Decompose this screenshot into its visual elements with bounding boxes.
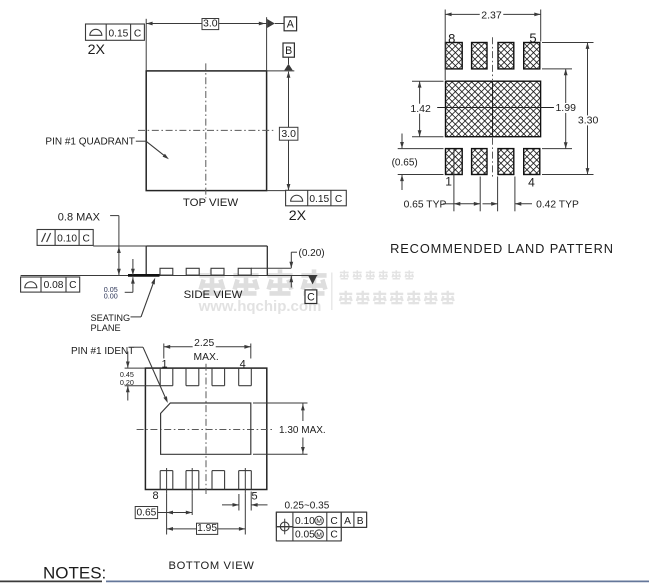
svg-text:2.37: 2.37 <box>481 10 502 22</box>
watermark slogan line1 <box>340 270 349 279</box>
svg-text:M: M <box>316 532 322 539</box>
svg-text:3.0: 3.0 <box>281 128 296 140</box>
datum C label box <box>305 290 317 304</box>
svg-text:BOTTOM VIEW: BOTTOM VIEW <box>169 560 255 572</box>
svg-text:0.65 TYP: 0.65 TYP <box>404 200 447 211</box>
svg-text:1: 1 <box>161 358 167 370</box>
svg-text:4: 4 <box>528 175 535 189</box>
dimension 0.65 TYP <box>453 150 455 212</box>
datum A label box <box>284 17 297 31</box>
lead top extension line <box>251 267 291 269</box>
svg-text:SIDE VIEW: SIDE VIEW <box>184 289 243 301</box>
dimension 3.0 vertical <box>288 72 290 191</box>
seating plane thick segment <box>128 274 160 277</box>
svg-text:C: C <box>82 233 89 244</box>
bottom view horizontal centerline <box>137 429 274 431</box>
svg-text:C: C <box>307 291 315 303</box>
svg-text:1.30 MAX.: 1.30 MAX. <box>279 425 326 436</box>
dimension 2.37 <box>444 10 446 81</box>
svg-text:3.30: 3.30 <box>578 115 599 127</box>
top view package body outline <box>146 71 266 191</box>
pin 1 quadrant leader <box>136 140 146 142</box>
svg-text:0.42 TYP: 0.42 TYP <box>536 200 579 211</box>
side view lead 1 <box>160 268 173 275</box>
page bottom border <box>0 580 102 582</box>
svg-text:C: C <box>134 28 141 39</box>
side view lead 2 <box>186 268 199 275</box>
svg-text:8: 8 <box>448 31 455 46</box>
svg-text:1.99: 1.99 <box>555 102 576 114</box>
svg-text:0.10: 0.10 <box>295 516 315 527</box>
svg-text:SEATING: SEATING <box>91 313 131 323</box>
side view body outline <box>146 245 267 247</box>
dimension 2.25 MAX <box>163 344 165 359</box>
side view top surface extension line <box>93 245 146 247</box>
land pattern center pad <box>446 81 541 137</box>
land pattern horizontal centerline <box>437 107 556 109</box>
datum feature B triangle <box>288 57 290 64</box>
profile tolerance frame seating plane <box>21 277 80 292</box>
bottom view body outline <box>145 368 266 489</box>
bottom edge extension line <box>267 190 286 192</box>
seating plane line <box>21 275 318 277</box>
land pattern vertical centerline <box>492 37 494 80</box>
svg-text:A: A <box>287 19 295 31</box>
dimension 3.30 <box>542 42 594 44</box>
svg-text:(0.65): (0.65) <box>392 157 418 168</box>
svg-text:0.15: 0.15 <box>108 28 128 39</box>
svg-text:B: B <box>285 45 292 57</box>
svg-text:NOTES:: NOTES: <box>43 564 106 583</box>
pin 1 ident leader <box>129 346 144 348</box>
svg-text:1.42: 1.42 <box>410 103 431 115</box>
svg-text:PIN #1 IDENT: PIN #1 IDENT <box>71 346 134 357</box>
dimension 0.25~0.35 lead width <box>238 494 240 511</box>
dimension 0.65 pitch <box>166 494 168 535</box>
svg-text:0.65: 0.65 <box>136 507 156 518</box>
dimension 3.0 horizontal <box>146 23 266 25</box>
svg-text:0.00: 0.00 <box>104 292 118 301</box>
svg-text:PIN #1 QUADRANT: PIN #1 QUADRANT <box>45 137 134 148</box>
dimension 1.30 MAX <box>253 402 308 404</box>
svg-text:RECOMMENDED LAND PATTERN: RECOMMENDED LAND PATTERN <box>390 241 614 256</box>
top edge extension line <box>267 70 295 72</box>
svg-text:B: B <box>357 516 364 527</box>
bottom view bottom row pins <box>159 471 161 490</box>
datum B label box <box>283 43 294 57</box>
top view left extension line <box>145 19 147 71</box>
svg-text:0.08: 0.08 <box>44 280 64 291</box>
profile tolerance frame bottom-right <box>286 190 347 206</box>
side view lead 4 <box>238 268 251 275</box>
dimension (0.20) <box>290 252 292 268</box>
svg-text:1.95: 1.95 <box>197 523 217 534</box>
svg-text:C: C <box>335 194 342 205</box>
svg-text:C: C <box>69 280 76 291</box>
svg-text:0.10: 0.10 <box>57 233 77 244</box>
watermark slogan line2 <box>339 291 352 304</box>
position tolerance frame <box>276 512 366 541</box>
dimension 1.95 <box>244 494 246 535</box>
svg-text:1: 1 <box>445 174 452 188</box>
top view right extension line <box>266 17 268 71</box>
svg-text:8: 8 <box>152 490 158 502</box>
datum feature A triangle <box>267 19 275 28</box>
dimension 0.42 TYP <box>497 177 499 212</box>
svg-text:A: A <box>344 516 351 527</box>
svg-text:C: C <box>330 516 337 527</box>
exposed pad with pin1 chamfer <box>161 403 251 454</box>
svg-text:C: C <box>330 530 337 541</box>
svg-text:TOP VIEW: TOP VIEW <box>183 197 239 209</box>
svg-text:3.0: 3.0 <box>203 17 218 29</box>
land pattern top pads <box>446 43 463 69</box>
top view horizontal centerline <box>138 129 273 131</box>
bottom view vertical centerline <box>205 364 207 494</box>
dimension 1.42 <box>412 80 444 82</box>
svg-text:PLANE: PLANE <box>91 323 121 333</box>
svg-text:0.05: 0.05 <box>295 530 315 541</box>
svg-text:0.20: 0.20 <box>120 378 134 387</box>
svg-text:(0.20): (0.20) <box>299 248 325 259</box>
land pattern bottom pads <box>446 149 463 175</box>
datum feature C triangle <box>308 276 317 285</box>
watermark divider <box>331 273 333 311</box>
dimension 1.99 <box>542 68 572 70</box>
bottom view top row pins <box>159 368 161 386</box>
svg-text:5: 5 <box>251 490 257 502</box>
dimension 0.45-0.20 lead length <box>125 367 146 369</box>
svg-text:2X: 2X <box>88 42 106 58</box>
svg-text:5: 5 <box>529 30 536 45</box>
profile tolerance frame top-left <box>86 24 145 40</box>
svg-text:MAX.: MAX. <box>194 352 219 363</box>
svg-text:0.25~0.35: 0.25~0.35 <box>285 501 330 512</box>
side view lead 3 <box>211 268 224 275</box>
svg-text:4: 4 <box>240 358 246 370</box>
seating plane leader <box>131 316 142 318</box>
svg-text:0.15: 0.15 <box>309 194 329 205</box>
svg-text:M: M <box>316 518 322 525</box>
top view vertical centerline <box>205 63 207 198</box>
svg-text:0.8 MAX: 0.8 MAX <box>58 211 101 223</box>
dimension (0.65) <box>398 148 444 150</box>
dimension 0.05-0.00 standoff <box>132 259 134 275</box>
svg-text:2X: 2X <box>289 208 307 224</box>
svg-text:2.25: 2.25 <box>194 338 214 349</box>
watermark hqchip logo text <box>199 269 224 295</box>
parallelism tolerance frame <box>37 230 93 246</box>
bottom pins centerlines <box>166 468 168 494</box>
